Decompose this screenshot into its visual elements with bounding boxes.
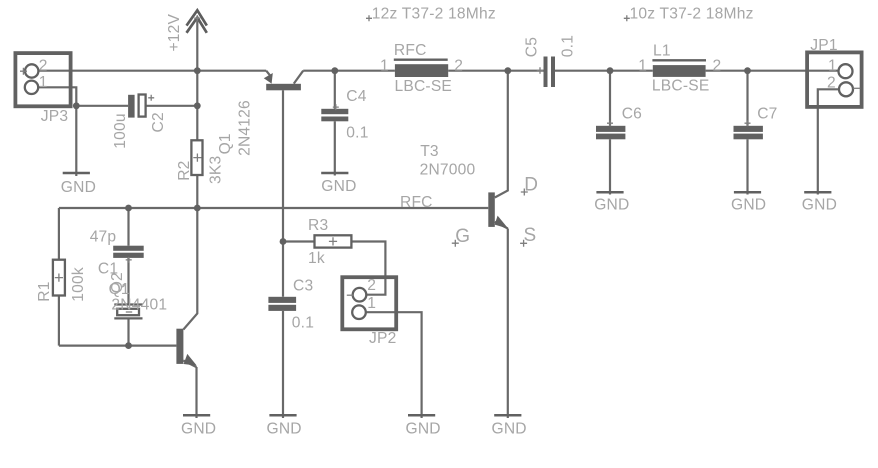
junction C4 tap (331, 67, 338, 74)
pin cross JP3 pin2 (20, 68, 27, 75)
svg-text:C3: C3 (293, 278, 313, 295)
transistor Q2 2N4401 (176, 329, 196, 368)
wire node to R3 left (283, 240, 315, 242)
wire node row to C1 top (127, 208, 129, 246)
svg-text:GND: GND (492, 420, 527, 437)
capacitor C3 0.1 (268, 278, 314, 332)
svg-text:GND: GND (406, 420, 441, 437)
svg-text:100k: 100k (70, 267, 87, 302)
svg-text:3K3: 3K3 (208, 156, 225, 184)
resistor R3 1k (308, 217, 351, 267)
ground under C6 (594, 192, 629, 213)
wire base row to Q2 base (59, 345, 176, 347)
svg-text:C5: C5 (524, 37, 541, 57)
svg-text:T3: T3 (420, 143, 439, 160)
svg-text:RFC: RFC (394, 42, 427, 59)
wire T3 drain vertical (495, 71, 508, 198)
junction crystal base row (125, 342, 132, 349)
junction R3 node (280, 238, 287, 245)
wire C4 bottom to GND (334, 121, 336, 175)
label T3 2N7000 (420, 143, 476, 178)
svg-text:1: 1 (638, 58, 647, 75)
junction +12V rail (194, 67, 201, 74)
ground under C3 (267, 415, 302, 437)
ground under JP2 (406, 415, 441, 437)
svg-text:GND: GND (321, 178, 356, 195)
svg-text:+12V: +12V (166, 13, 183, 51)
svg-text:LBC-SE: LBC-SE (395, 78, 453, 95)
ground under T3 source (492, 415, 527, 437)
svg-text:0.1: 0.1 (560, 35, 577, 57)
connector JP2 (342, 277, 396, 347)
junction C6 tap (607, 67, 614, 74)
wire C2 right to rail (146, 105, 198, 107)
wire RFC pin2 to C5 (448, 70, 543, 72)
connector JP1 (807, 37, 862, 107)
svg-text:C7: C7 (757, 105, 777, 122)
wire Q1 base down to C3 (282, 90, 284, 296)
svg-text:2: 2 (454, 58, 463, 75)
svg-text:C6: C6 (622, 105, 642, 122)
svg-text:G: G (455, 226, 470, 247)
svg-text:C2: C2 (150, 112, 167, 132)
svg-text:Q1: Q1 (217, 133, 234, 154)
connector JP3 (15, 53, 70, 125)
wire R2 bottom to node row (196, 175, 198, 208)
ground under JP1 (802, 192, 837, 213)
wire +12V rail down to R2 top (196, 71, 198, 141)
inductor RFC LBC-SE (380, 42, 463, 95)
wire L1 pin2 to JP1 pin1 (706, 70, 839, 72)
pin cross JP2 pin2 (347, 294, 354, 296)
svg-text:1: 1 (828, 58, 837, 75)
wire crystal bottom to base row (127, 320, 129, 346)
supply +12V arrow (187, 10, 207, 33)
wire gate node row (59, 207, 488, 209)
svg-text:2N7000: 2N7000 (420, 161, 476, 178)
wire C3 bottom to GND (282, 311, 284, 418)
svg-text:JP3: JP3 (41, 108, 68, 125)
wire Q2 emitter vertical (195, 367, 197, 418)
svg-text:Q1: Q1 (109, 281, 130, 298)
svg-text:R3: R3 (308, 217, 328, 234)
svg-text:1: 1 (380, 57, 389, 74)
svg-text:47p: 47p (90, 228, 117, 245)
wire C6 top lead (609, 71, 611, 126)
ground under C7 (731, 192, 766, 213)
wire C7 top lead (746, 71, 748, 126)
ground under JP3 (61, 173, 96, 196)
capacitor C5 0.1 (524, 35, 577, 87)
wire JP1 pin2 to GND (818, 89, 838, 194)
wire R1 bottom to base row (58, 296, 60, 346)
junction T3 drain (504, 67, 511, 74)
svg-text:1: 1 (367, 295, 376, 312)
svg-text:GND: GND (802, 197, 837, 214)
svg-text:R1: R1 (36, 281, 53, 301)
wire C5 to L1 pin1 (555, 70, 653, 72)
wire JP3 pin1 to GND node (39, 87, 77, 176)
crystal Q2 (109, 272, 168, 318)
svg-text:2N4401: 2N4401 (111, 297, 167, 314)
svg-text:1: 1 (39, 74, 48, 91)
junction C7 tap (744, 67, 751, 74)
junction JP3 pin1 node (73, 102, 80, 109)
svg-text:2: 2 (367, 277, 376, 294)
svg-text:GND: GND (267, 420, 302, 437)
svg-text:0.1: 0.1 (346, 124, 368, 141)
svg-text:RFC: RFC (400, 194, 433, 211)
svg-text:1k: 1k (308, 250, 325, 267)
svg-text:0.1: 0.1 (292, 315, 314, 332)
svg-text:100u: 100u (112, 113, 129, 149)
junction C2 right rail (194, 102, 201, 109)
capacitor C1 47p (90, 228, 144, 277)
transistor T3 2N7000 (452, 174, 538, 247)
capacitor C4 0.1 (321, 88, 368, 141)
svg-text:2: 2 (827, 75, 836, 92)
wire C4 top lead (334, 71, 336, 109)
ground under C4 (321, 173, 356, 195)
svg-text:JP2: JP2 (369, 330, 396, 347)
transistor Q1 2N4126 (217, 71, 303, 156)
capacitor C6 (596, 105, 642, 139)
resistor R2 3K3 (176, 140, 225, 184)
junction C1 tap (125, 205, 132, 212)
wire +12V supply drop (196, 18, 198, 71)
wire GND node to C2 left (76, 105, 128, 107)
svg-text:2: 2 (39, 57, 48, 74)
wire C6 bottom to GND (609, 139, 611, 194)
svg-text:GND: GND (181, 420, 216, 437)
pin cross JP1 pin2 (853, 87, 860, 89)
wire R3 right to JP2 pin2 (351, 242, 385, 295)
wire JP3 pin2 to Q1 emitter (39, 70, 267, 72)
capacitor C7 (734, 105, 778, 139)
svg-text:LBC-SE: LBC-SE (652, 78, 710, 95)
junction R2 bottom node (194, 205, 201, 212)
inductor L1 LBC-SE (638, 43, 721, 95)
svg-text:2N4126: 2N4126 (237, 100, 254, 156)
svg-text:GND: GND (731, 197, 766, 214)
resistor R1 100k (36, 260, 87, 302)
svg-text:C4: C4 (346, 88, 366, 105)
wire C7 bottom to GND (746, 139, 748, 194)
svg-text:12z T37-2 18Mhz: 12z T37-2 18Mhz (372, 6, 496, 23)
svg-text:GND: GND (61, 179, 96, 196)
wire node row to R1 top (58, 208, 60, 260)
svg-text:JP1: JP1 (810, 37, 837, 54)
wire JP2 pin1 to GND (366, 312, 421, 418)
wire T3 source vertical (507, 229, 509, 419)
ground under Q2 (181, 415, 216, 437)
svg-text:2: 2 (713, 58, 722, 75)
capacitor C2 (100u electrolytic) (112, 95, 167, 149)
svg-text:R2: R2 (176, 160, 193, 180)
svg-text:L1: L1 (653, 43, 671, 60)
svg-text:GND: GND (594, 197, 629, 214)
wire C1 bottom to crystal (127, 258, 129, 304)
wire Q1 collector to RFC pin1 (303, 70, 395, 72)
svg-text:10z T37-2 18Mhz: 10z T37-2 18Mhz (630, 6, 754, 23)
wire node row down to Q2 collector (183, 208, 197, 330)
